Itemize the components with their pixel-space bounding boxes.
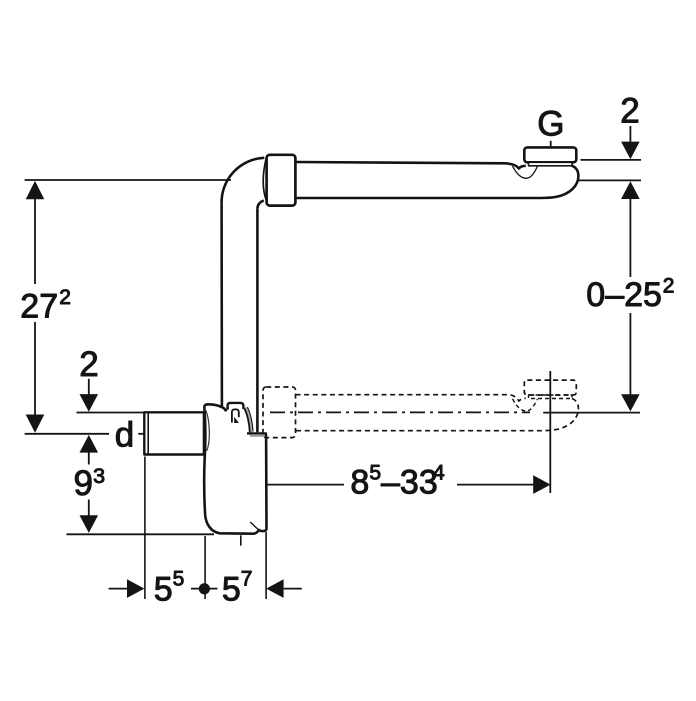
inlet pipe end cap inner line [147, 413, 149, 455]
dashed inner curve under dashed flange [513, 399, 538, 411]
dimension 0-252: arrow down [621, 394, 640, 411]
dimension 2 left: upper reference line [77, 412, 204, 414]
vertical pipe right edge [256, 209, 259, 432]
leader line from G to flange [550, 141, 552, 147]
dashed flange lip [529, 395, 573, 399]
horizontal pipe bottom edge and right end outer curve [296, 166, 579, 198]
dimension 0-252: vertical line upper [629, 199, 631, 277]
dimension 2 right: lower reference line [579, 179, 642, 181]
dimension 2 left: vertical line [88, 379, 90, 395]
svg-text:4: 4 [433, 462, 445, 485]
trap right edge [265, 437, 268, 529]
svg-text:2: 2 [79, 345, 98, 384]
dimension 85-334: arrow right [533, 475, 550, 494]
elbow outer curve [222, 158, 265, 204]
svg-text:2: 2 [663, 274, 675, 297]
svg-text:3: 3 [93, 464, 105, 488]
dimension 2 right: upper reference line [581, 159, 642, 161]
svg-text:–33: –33 [381, 464, 438, 502]
thin inner curve under flange [513, 166, 538, 178]
trap inlet pipe [144, 412, 204, 454]
cap right slope bold [245, 408, 251, 432]
cap right slope thin line [247, 407, 253, 432]
dimension 272: arrow up [26, 181, 45, 199]
projection line at dashed flange center [549, 371, 551, 493]
svg-text:7: 7 [241, 567, 253, 590]
svg-text:5: 5 [173, 567, 185, 590]
dimension 2 right: arrow down [621, 142, 640, 160]
dash-dot centerline [270, 411, 530, 413]
trap outlet ledge [247, 433, 266, 437]
svg-text:2: 2 [620, 92, 639, 131]
trap body fill [204, 404, 266, 533]
dimension 55: left tail [109, 588, 127, 590]
d leader to pipe [138, 433, 144, 435]
dimension 93: arrow down [80, 515, 99, 533]
svg-text:27: 27 [20, 287, 58, 325]
trap interior thin curve [205, 409, 210, 451]
cap right slope shading [246, 408, 252, 432]
dimension 57: right tail [284, 588, 302, 590]
outlet stub below trap [240, 535, 242, 545]
svg-text:2: 2 [59, 286, 71, 309]
projection line from trap right edge [265, 532, 267, 599]
dimension 272: top reference line [25, 179, 231, 181]
dimension 93: vertical line lower [88, 500, 90, 516]
projection line from inlet pipe end [144, 457, 146, 600]
svg-text:5: 5 [222, 570, 241, 608]
dashed pipe bottom edge and right end [296, 399, 579, 431]
dashed pipe top edge with hook [296, 395, 526, 401]
svg-text:0–25: 0–25 [586, 276, 662, 314]
flange lip [529, 162, 573, 166]
dashed flange [524, 380, 576, 395]
cap top-left edge [204, 404, 226, 411]
break thin diagonal [250, 522, 257, 529]
cap clip tab [228, 403, 244, 410]
dimension 55: arrow right [127, 579, 144, 598]
svg-text:d: d [115, 416, 134, 455]
svg-text:9: 9 [74, 464, 93, 503]
d reference line left of label [25, 433, 109, 435]
svg-text:G: G [537, 104, 564, 143]
svg-text:5: 5 [154, 570, 173, 608]
dimension 272: vertical line lower [34, 322, 36, 415]
dashed coupling nut (alternate position) [263, 387, 296, 438]
clip tab inner hook [232, 409, 239, 422]
dimension 0-252: vertical line lower [629, 313, 631, 395]
ledge shading [250, 435, 265, 437]
dimension 2 left: arrow down [80, 394, 99, 412]
horizontal pipe top edge with hook at right end [296, 162, 526, 169]
dimension 272: vertical line upper [34, 199, 36, 284]
projection line from trap left edge [204, 536, 206, 599]
dimension 93: vertical line upper [88, 452, 90, 464]
dimension 93: bottom reference line [67, 533, 215, 535]
dimension 0-252: lower reference line [543, 412, 640, 414]
elbow inner curve [257, 201, 263, 209]
dimension 2 right: vertical line [629, 126, 631, 142]
clip tab dark wedge [234, 417, 239, 423]
pipe end arc left of nut [263, 158, 266, 201]
dimension 85-334: right line segment [457, 484, 534, 486]
dimension 57: arrow left [266, 579, 283, 598]
trap bottom edge with break wave [205, 516, 266, 534]
svg-text:5: 5 [369, 462, 381, 485]
washbasin flange [524, 147, 576, 162]
separator dot [191, 588, 218, 590]
elbow coupling nut [267, 155, 296, 206]
dimension 85-334: left line segment [267, 484, 345, 486]
svg-text:8: 8 [350, 464, 369, 502]
trap body left edge [204, 406, 205, 515]
dimension 272: arrow down [26, 415, 45, 433]
dimension 2 left: arrow up shared with 93 [80, 435, 99, 453]
dimension 0-252: arrow up [621, 181, 640, 199]
vertical pipe left edge [220, 203, 223, 407]
